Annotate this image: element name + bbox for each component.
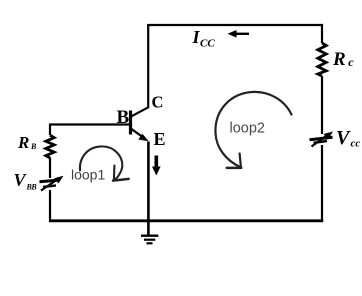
battery VBB (variable source symbol) [40,176,64,191]
svg-text:loop1: loop1 [71,166,105,182]
wire right vertical upper [321,24,323,43]
wire left vertical lower [49,190,51,222]
wire emitter vertical [147,142,150,235]
svg-text:R: R [332,49,346,70]
arrow ICC current direction [228,30,250,38]
transistor Q1 collector [131,24,149,117]
label Rc [332,49,354,70]
svg-text:c: c [348,55,354,69]
wire left vertical middle [49,158,51,179]
label RB [17,133,37,152]
svg-text:CC: CC [200,37,215,49]
svg-text:loop2: loop2 [230,121,265,137]
resistor Rc [318,43,326,76]
svg-text:B: B [30,142,37,151]
svg-text:E: E [154,129,166,149]
wire right vertical lower [321,145,323,222]
transistor Q1 base bar [129,111,132,135]
svg-text:BB: BB [26,183,38,192]
battery VCC (variable source symbol) [310,132,334,147]
svg-text:B: B [117,107,130,128]
wire left vertical upper [49,124,51,136]
svg-text:R: R [17,133,29,152]
svg-text:C: C [152,93,164,112]
wire base horizontal [50,123,130,125]
svg-text:V: V [336,127,351,149]
label Vcc [336,127,360,150]
loop2 arc arrow [215,92,291,168]
svg-text:cc: cc [351,138,361,150]
wire right vertical middle [321,76,323,134]
wire top horizontal [147,24,323,26]
ground [141,236,158,244]
resistor RB [46,135,54,158]
emitter current arrow [152,156,161,176]
svg-text:V: V [14,170,28,190]
loop1 arc arrow [80,146,129,180]
label VBB [14,170,38,192]
label ICC [192,27,216,49]
transistor Q1 emitter with arrow [131,128,149,141]
wire bottom horizontal [49,219,323,222]
